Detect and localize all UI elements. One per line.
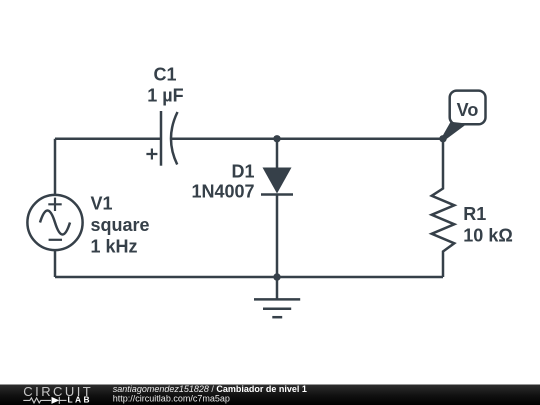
svg-text:1 kHz: 1 kHz [91,236,138,256]
svg-text:http://circuitlab.com/c7ma5ap: http://circuitlab.com/c7ma5ap [113,393,230,403]
svg-text:R1: R1 [463,204,486,224]
svg-text:LAB: LAB [68,395,92,405]
svg-text:D1: D1 [231,162,254,182]
svg-text:10 kΩ: 10 kΩ [463,226,512,246]
svg-text:C1: C1 [153,65,176,85]
svg-text:1 µF: 1 µF [147,86,183,106]
svg-text:1N4007: 1N4007 [191,182,254,202]
svg-text:Vo: Vo [457,100,479,120]
svg-text:V1: V1 [91,193,113,213]
svg-text:square: square [91,215,150,235]
